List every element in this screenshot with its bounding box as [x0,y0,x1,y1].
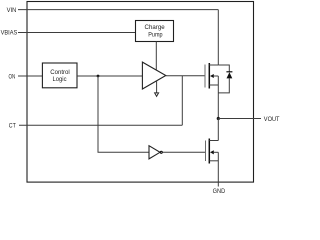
body diode D1 cathode bar [226,71,232,73]
body diode D1 top connection [218,65,229,72]
svg-text:VBIAS: VBIAS [1,30,18,37]
pulldown current sink arrow below amplifier [156,81,158,93]
transistor Q2 body stub [214,151,219,153]
wire VOUT node to pin [218,118,261,120]
svg-text:Pump: Pump [148,31,163,38]
wire Q1 body/source rail down to VOUT node [217,76,219,119]
wire VBIAS to charge pump [18,32,136,34]
transistor Q1 body arrow [210,74,214,78]
transistor Q2 source stub [209,160,218,162]
body diode D1 triangle [227,72,233,78]
transistor Q1 body stub [214,75,219,77]
transistor Q2 body arrow [210,150,214,154]
svg-text:Control: Control [50,69,70,76]
svg-text:GND: GND [213,188,226,195]
outer device boundary box [27,2,254,183]
transistor Q1 pass FET gate bar [204,65,206,88]
wire CT up to amplifier output net [181,76,183,126]
transistor Q1 drain stub [209,64,218,66]
svg-text:Charge: Charge [145,24,166,31]
charge pump block U2 [136,21,174,42]
wire VIN rail down to Q1 drain [217,10,219,65]
wire inverter to Q2 gate [163,151,206,153]
inverter U4 output bubble [160,151,162,153]
wire charge pump to amplifier [155,42,157,70]
op-amp U1 gate driver triangle [142,62,165,89]
wire CT pin horizontal [19,124,182,126]
control logic block U3 [42,63,77,88]
wire control logic to gate driver amplifier [77,75,142,77]
wire VOUT node down to Q2 drain [217,119,219,141]
wire ON pin to control logic [18,75,42,77]
svg-text:ON: ON [9,73,16,80]
transistor Q1 channel bar [208,63,210,89]
wire Q2 source rail to GND pin [217,152,219,186]
wire amplifier output to Q1 gate [166,75,205,77]
wire node A down to inverter [98,76,149,152]
inverter U4 discharge driver [149,146,160,159]
svg-text:VOUT: VOUT [264,116,280,123]
svg-text:VIN: VIN [7,7,17,14]
transistor Q1 source stub [209,84,218,86]
node A junction dot on ON net [97,75,100,78]
transistor Q2 channel bar [208,139,210,164]
transistor Q2 drain stub [209,140,218,142]
svg-text:Logic: Logic [53,76,67,83]
transistor Q2 discharge FET gate bar [205,141,207,162]
svg-text:CT: CT [9,123,16,130]
wire VIN pin to drain rail [18,9,218,11]
body diode D1 bottom connection [218,78,229,93]
node VOUT junction dot [217,117,220,120]
